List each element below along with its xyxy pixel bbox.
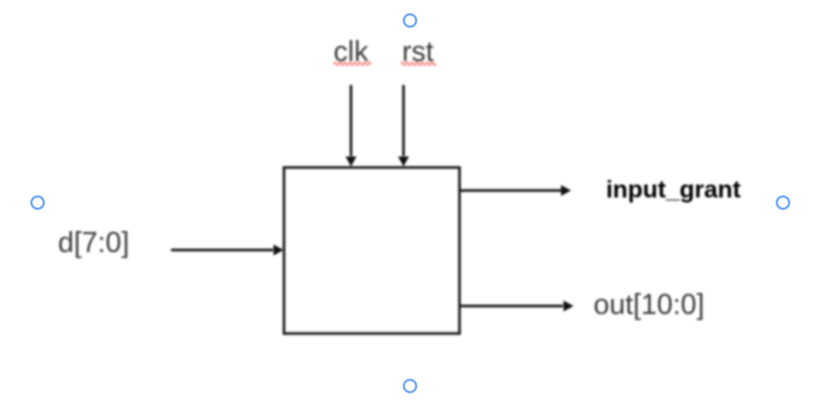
connection handle left [31, 196, 43, 208]
wire clk arrow (into top of block) [350, 85, 353, 156]
connection handle bottom [404, 380, 416, 392]
spellcheck squiggle under rst [401, 62, 436, 65]
wire rst arrow (into top of block) [402, 85, 405, 156]
spellcheck squiggle under clk [334, 62, 372, 65]
connection handle top [404, 14, 416, 26]
wire input_grant arrow (out of right of block) [460, 189, 561, 192]
svg-text:d[7:0]: d[7:0] [58, 227, 129, 259]
svg-text:input_grant: input_grant [606, 177, 741, 204]
connection handle right [777, 196, 789, 208]
wire out[10:0] arrow (out of right of block) [460, 305, 563, 308]
module block (DUT box) [284, 168, 460, 334]
wire d[7:0] arrow (into left of block) [171, 249, 273, 252]
svg-text:out[10:0]: out[10:0] [594, 289, 705, 321]
